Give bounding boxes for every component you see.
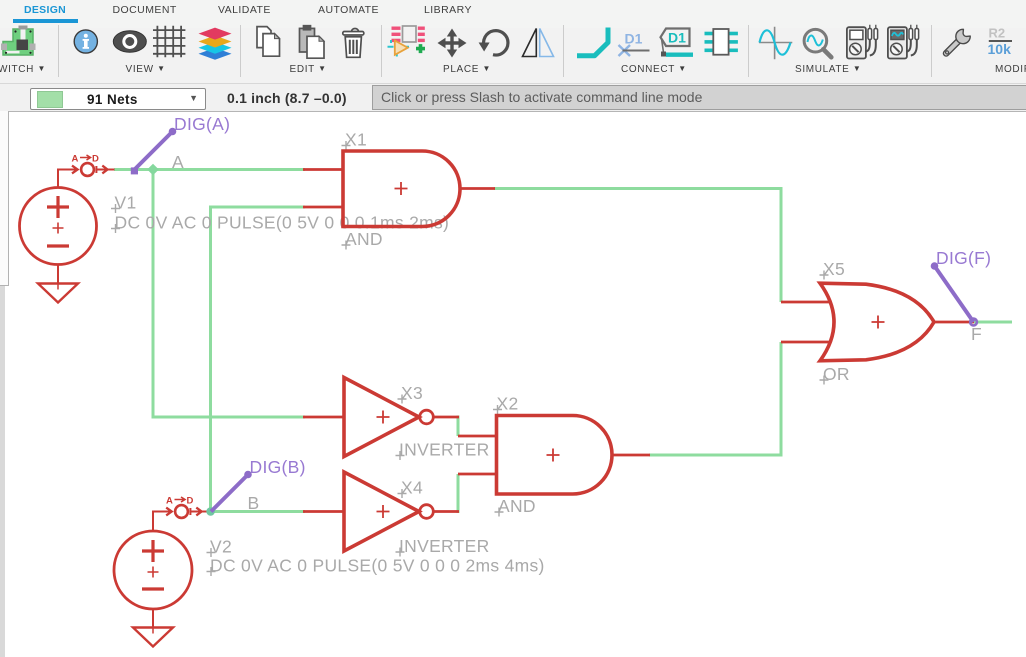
svg-text:D1: D1 bbox=[668, 29, 686, 45]
svg-text:A: A bbox=[166, 496, 173, 507]
OR gate X5 bbox=[820, 283, 934, 361]
pin X5 input 2 bbox=[781, 341, 830, 344]
pin X1 input 1 bbox=[303, 168, 343, 171]
wire X1 output down to X5 input bbox=[780, 187, 783, 302]
wrench icon bbox=[939, 28, 972, 61]
AND gate X2 bbox=[497, 416, 613, 495]
pin X4 output bbox=[433, 510, 459, 513]
wire X4 output to X2 input bbox=[457, 474, 460, 513]
origin cross of AND X1 bbox=[342, 241, 351, 250]
junction node A bbox=[147, 164, 159, 176]
wire X2 output net bbox=[649, 454, 781, 457]
svg-text:DC 0V AC 0 PULSE(0 5V 0 0 0 2m: DC 0V AC 0 PULSE(0 5V 0 0 0 2ms 4ms) bbox=[210, 556, 545, 576]
AND gate X1 bbox=[343, 151, 460, 227]
label name icon bbox=[619, 31, 650, 57]
move icon bbox=[438, 29, 467, 58]
svg-text:DIG(F): DIG(F) bbox=[936, 248, 991, 268]
svg-text:D1: D1 bbox=[625, 31, 643, 47]
origin cross of label V2 bbox=[207, 548, 216, 557]
mirror icon bbox=[523, 29, 554, 57]
origin cross of AND X2 bbox=[495, 508, 504, 517]
origin cross of label X5 bbox=[820, 271, 829, 280]
svg-text:A: A bbox=[72, 154, 79, 165]
origin cross of value V1 bbox=[111, 224, 120, 233]
svg-text:AND: AND bbox=[498, 496, 536, 516]
eye icon bbox=[113, 31, 146, 53]
svg-text:DIG(A): DIG(A) bbox=[174, 114, 230, 134]
pin X5 output bbox=[933, 321, 974, 324]
voltage source V1 bbox=[20, 170, 97, 265]
pin X2 input 2 bbox=[458, 473, 497, 476]
multimeter icon bbox=[847, 25, 878, 59]
svg-text:X4: X4 bbox=[401, 478, 423, 498]
digital probe wire DIG(A) bbox=[131, 114, 230, 174]
A-to-D text of V1 bbox=[72, 154, 100, 165]
layers icon bbox=[199, 28, 232, 60]
svg-text:OR: OR bbox=[823, 364, 850, 384]
ground symbol of V2 bbox=[133, 609, 173, 647]
wire net B horizontal bbox=[211, 510, 305, 513]
switch pcb icon bbox=[1, 26, 36, 56]
wire X2 output up to X5 input bbox=[780, 342, 783, 457]
svg-text:AND: AND bbox=[345, 229, 383, 249]
pin X1 output bbox=[459, 187, 495, 190]
net wire icon bbox=[577, 28, 608, 56]
svg-text:F: F bbox=[971, 324, 982, 344]
inverter X3 bbox=[344, 378, 433, 457]
svg-text:D: D bbox=[92, 154, 99, 165]
ground symbol of V1 bbox=[38, 265, 78, 303]
svg-text:INVERTER: INVERTER bbox=[399, 536, 490, 556]
junction node B bbox=[206, 507, 215, 516]
add part icon bbox=[388, 26, 426, 57]
pin X2 output bbox=[611, 454, 650, 457]
origin cross of value V2 bbox=[207, 567, 216, 576]
svg-text:R2: R2 bbox=[989, 26, 1006, 41]
pin X1 input 2 bbox=[303, 206, 343, 209]
paste icon bbox=[300, 26, 325, 58]
voltage source V2 bbox=[114, 512, 192, 610]
left edge panel remnants bbox=[0, 111, 5, 657]
pin X3 output bbox=[433, 416, 459, 419]
resistor value icon bbox=[988, 26, 1013, 58]
digital probe wire DIG(F) bbox=[931, 248, 992, 325]
wire X3 output to X2 input bbox=[457, 416, 460, 437]
info icon bbox=[74, 30, 97, 53]
simulate magnifier icon bbox=[804, 29, 831, 57]
svg-text:INVERTER: INVERTER bbox=[399, 440, 490, 460]
wire net A vertical drop bbox=[152, 170, 155, 419]
origin cross of INVERTER X3 bbox=[396, 451, 405, 460]
pin X3 input bbox=[303, 416, 344, 419]
ic pins icon bbox=[705, 29, 738, 55]
copy icon bbox=[257, 27, 280, 57]
A-to-D bridge of V1 bbox=[72, 163, 115, 176]
svg-text:X3: X3 bbox=[401, 383, 423, 403]
svg-text:X5: X5 bbox=[823, 259, 845, 279]
origin cross of OR X5 bbox=[820, 376, 829, 385]
wire net B to X1 lower input bbox=[211, 206, 306, 209]
svg-text:DIG(B): DIG(B) bbox=[250, 457, 306, 477]
origin cross of label X1 bbox=[342, 141, 351, 150]
pin X2 input 1 bbox=[458, 435, 497, 438]
top chrome bbox=[0, 0, 1026, 28]
svg-text:X2: X2 bbox=[497, 394, 519, 414]
pin X5 input 1 bbox=[781, 301, 830, 304]
svg-text:D: D bbox=[187, 496, 194, 507]
digital probe wire DIG(B) bbox=[211, 457, 306, 512]
inverter X4 bbox=[344, 472, 433, 551]
wire X1 output net bbox=[494, 187, 781, 190]
multimeter wave icon bbox=[888, 25, 919, 59]
origin cross of label V1 bbox=[111, 204, 120, 213]
origin cross of label X2 bbox=[493, 405, 502, 414]
svg-text:B: B bbox=[248, 493, 260, 513]
trash icon bbox=[343, 29, 364, 58]
pin X4 input bbox=[303, 510, 344, 513]
wire net A horizontal bbox=[114, 168, 305, 171]
origin cross of label X4 bbox=[398, 489, 407, 498]
svg-text:10k: 10k bbox=[988, 41, 1012, 57]
origin cross of label X3 bbox=[398, 395, 407, 404]
wire net B vertical riser bbox=[209, 206, 212, 512]
wire net F output bbox=[974, 321, 1012, 324]
svg-text:DC 0V AC 0 PULSE(0 5V 0 0 0.1m: DC 0V AC 0 PULSE(0 5V 0 0 0.1ms 2ms) bbox=[115, 213, 450, 233]
svg-text:X1: X1 bbox=[345, 130, 367, 150]
sine wave icon bbox=[759, 27, 792, 59]
wire net A to X3 input bbox=[152, 416, 306, 419]
svg-text:V2: V2 bbox=[210, 537, 232, 557]
svg-text:A: A bbox=[172, 152, 184, 172]
label value flag icon bbox=[661, 29, 694, 57]
grid icon bbox=[153, 26, 185, 58]
origin cross of INVERTER X4 bbox=[396, 548, 405, 557]
A-to-D text of V2 bbox=[166, 496, 194, 507]
svg-text:V1: V1 bbox=[115, 193, 137, 213]
rotate icon bbox=[479, 31, 508, 55]
A-to-D bridge of V2 bbox=[166, 505, 208, 518]
